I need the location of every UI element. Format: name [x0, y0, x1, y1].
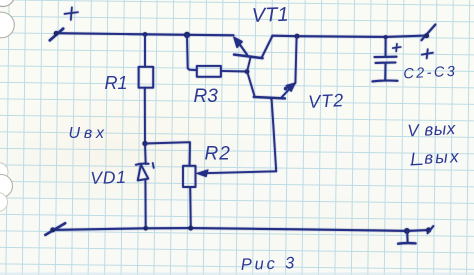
svg-text:V вых: V вых — [407, 119, 456, 141]
svg-text:R3: R3 — [194, 86, 219, 107]
svg-text:I вых: I вых — [410, 147, 461, 169]
ground — [398, 228, 416, 244]
transistor VT1 — [234, 36, 273, 71]
label I vyh output — [410, 147, 461, 169]
node I (bottom rail right end) — [426, 226, 434, 233]
node D (rail / C2 lead) — [384, 35, 388, 39]
binder hole bottom 3 — [0, 193, 8, 212]
arrow bottom-left terminal — [45, 223, 65, 235]
plus sign capacitor — [393, 44, 401, 52]
wire wiper to VT2 base — [272, 100, 277, 172]
arrow input terminal — [50, 29, 63, 41]
wire VD1 cathode lead — [144, 144, 147, 165]
binder hole top 2 — [0, 12, 14, 38]
wire bottom rail — [53, 228, 429, 231]
node C (rail / VT2 emitter) — [295, 34, 300, 39]
svg-text:R1: R1 — [105, 73, 128, 93]
node G (bottom rail / VD1) — [143, 226, 148, 231]
node A (rail / R1) — [143, 32, 148, 37]
wire R2 bottom lead — [189, 187, 192, 228]
resistor R3 — [197, 66, 221, 77]
wire VD1 anode lead — [144, 180, 146, 229]
wire node E to R2 — [145, 142, 190, 166]
arrow output terminal — [422, 25, 436, 41]
wire top rail right segment — [272, 36, 427, 37]
svg-text:VD1: VD1 — [90, 167, 127, 188]
svg-text:VT1: VT1 — [251, 4, 288, 27]
resistor R1 — [139, 67, 154, 88]
svg-text:Uвх: Uвх — [69, 125, 108, 142]
node F (R3 / VT1 base / VT2 collector) — [245, 69, 250, 74]
svg-text:R2: R2 — [205, 144, 231, 165]
svg-text:C2-C3: C2-C3 — [403, 64, 458, 83]
wire R3 to node F — [221, 70, 247, 73]
node E (R1 / VD1 / R2 branch) — [142, 141, 147, 146]
resistor R2 (potentiometer body) — [183, 166, 196, 187]
wire node B to R3 — [187, 35, 197, 70]
node B (rail / R3) — [184, 32, 190, 38]
wire R1 bottom lead — [144, 88, 146, 144]
wire R1 top lead — [144, 34, 146, 66]
binder hole bottom 2 — [0, 175, 13, 198]
wire top rail left segment — [56, 33, 234, 35]
transistor VT2 — [247, 36, 296, 99]
diode VD1 (zener) — [136, 163, 154, 180]
wiper arrow of R2 — [197, 170, 276, 177]
plus sign output — [422, 49, 433, 58]
node H (bottom rail / R2) — [188, 226, 193, 231]
binder hole bottom 1 — [0, 163, 8, 182]
capacitor C2-C3 — [372, 37, 397, 81]
svg-text:VT2: VT2 — [308, 90, 345, 112]
svg-text:Puc 3: Puc 3 — [241, 254, 298, 274]
plus sign input — [65, 7, 79, 20]
binder hole top 1 — [0, 0, 15, 7]
